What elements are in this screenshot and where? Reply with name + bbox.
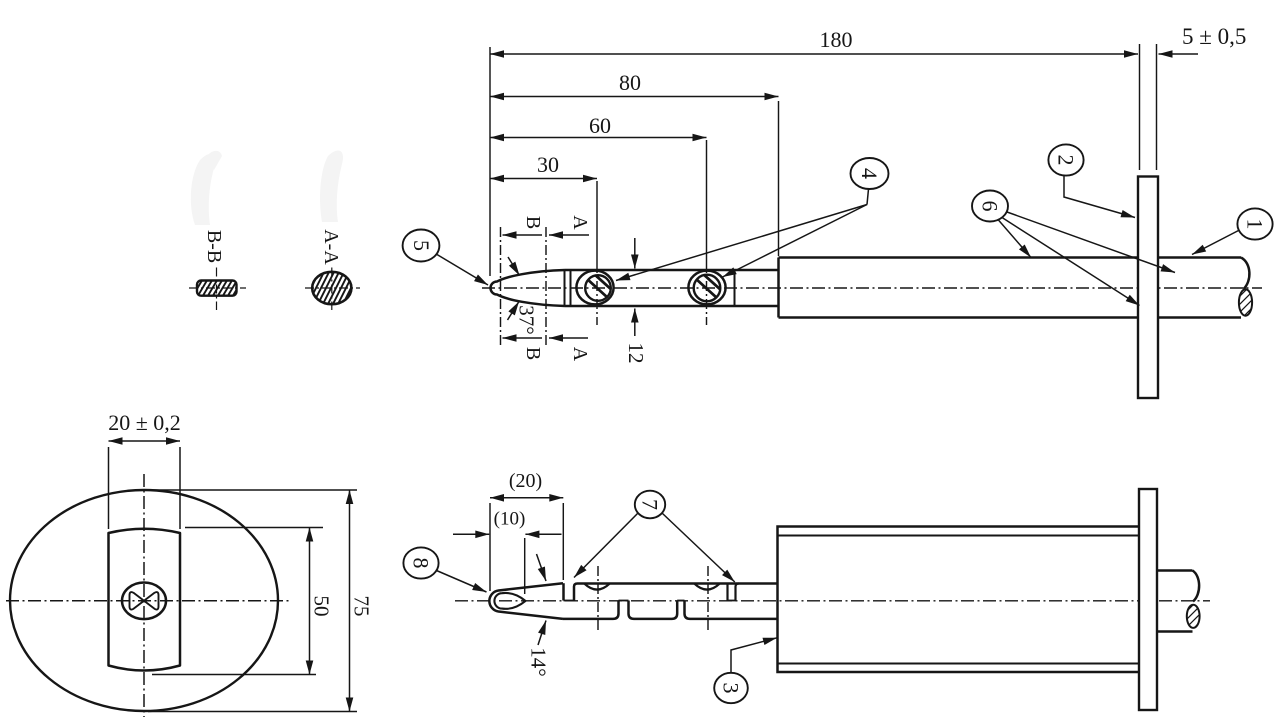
svg-text:75: 75 [350,596,374,617]
balloon 2 (stop plate) [1048,144,1135,217]
section arrow B (top) [503,234,543,236]
joint 2 centre line (side view) [707,566,709,633]
joint 1 (hatched pin, top view) [576,271,613,305]
extension line at 20 from tip [562,503,564,580]
joint 1 centre line [596,181,598,263]
finger segments lower half (side view) [563,601,778,619]
stop plate (part 2) top view [1138,177,1158,399]
hatching of broken rod end (side view) [1182,598,1206,636]
piece 1 lower tongue [563,601,619,619]
svg-text:37°: 37° [515,305,539,334]
extension line at 10 from tip [524,538,526,594]
svg-text:6: 6 [978,201,1003,212]
dimension (10) [453,533,562,535]
svg-text:A: A [569,347,591,362]
svg-text:14°: 14° [527,647,551,676]
angle 14 deg arrows at tip (side view) [537,554,547,645]
extension line at tip (side view) [489,503,491,591]
joint 2 centre line [706,140,708,263]
svg-text:60: 60 [589,113,611,138]
extension line at finger tip [489,47,491,276]
centerline of probe axis (top view) [482,287,1262,289]
dimension 75 [349,490,351,712]
extension line at handle front face [778,101,780,256]
dimension 30 [490,178,597,180]
svg-text:2: 2 [1054,155,1079,166]
finger segments upper half (side view) [564,583,778,600]
section line B [500,227,502,346]
horizontal centre line (front view) [6,600,290,602]
section arrow B (bottom) [503,337,543,339]
finger end view circle [122,583,166,620]
svg-text:180: 180 [820,27,853,52]
svg-text:B: B [522,216,544,229]
handle (side view, part 3) [778,527,1144,673]
svg-text:3: 3 [719,683,744,694]
extension lines for 20 +/- 0,2 [108,447,110,529]
svg-text:(20): (20) [509,470,542,492]
section arrow A (bottom) [549,337,588,339]
piece 2 upper [574,584,778,601]
joint 2 relief lens [695,584,720,590]
extension lines of stop plate thickness [1139,44,1141,170]
finger tip (side view): cap and taper [489,583,563,619]
slot 2 [728,584,740,601]
svg-text:5 ± 0,5: 5 ± 0,5 [1182,24,1246,49]
svg-text:B: B [522,347,544,360]
centerline of probe axis (side view) [455,600,1210,602]
section line A [545,227,547,346]
balloon 1 (rod) [1192,208,1273,254]
section arrow A (top) [549,234,589,236]
piece 1 upper end [562,583,565,600]
extension lines for 75 [150,489,357,491]
svg-text:80: 80 [619,70,641,95]
balloon 4 (joints) with two leaders [616,158,889,281]
svg-text:20 ± 0,2: 20 ± 0,2 [108,410,181,435]
svg-text:50: 50 [310,596,334,617]
tip flats bow-tie symbol [130,592,159,609]
balloon 7 (slots) with two leaders [574,491,735,582]
svg-text:8: 8 [409,558,434,569]
svg-text:B-B: B-B [203,230,225,263]
balloon 6 (rod/plate) with three leaders [972,191,1175,306]
svg-text:A-A: A-A [320,229,342,265]
svg-text:12: 12 [624,343,648,364]
joint 2 (hatched pin, top view) [688,271,725,305]
dimension 180 [490,53,1138,55]
tip chamfer teardrop [494,593,525,609]
balloon 8 (tip, side view) [403,547,486,592]
angle 37 deg arrows at tip [508,257,520,320]
svg-text:5: 5 [409,240,434,251]
dimension 20 +/- 0,2 [109,440,181,442]
handle (part 3) top view [779,258,1139,318]
extension lines for 50 [185,527,323,529]
test finger outline (top view) [491,270,779,306]
stop plate disc (front view) [10,490,278,711]
svg-text:4: 4 [857,168,882,179]
stop plate (side view, part 2) [1139,489,1157,710]
faint scan ghost near B-B [191,151,222,225]
balloon 3 (handle) [714,638,777,703]
svg-text:(10): (10) [494,509,526,530]
cylindrical rod behind plate with conventional break (top view) [1158,258,1252,318]
tip parting double lines [564,270,566,306]
vertical centre line (front view) [143,474,145,717]
svg-text:30: 30 [537,152,559,177]
section B-B shape [189,268,249,311]
slot 1 floor [564,600,575,602]
hatching of broken rod end (top view) [1234,284,1258,326]
svg-text:1: 1 [1243,219,1268,230]
faint scan ghost near A-A [320,150,343,222]
dimension 5 +/- 0,5 (plate thickness) [1159,53,1199,55]
joint 1 relief lens [585,584,610,590]
dimension (20) [490,497,563,499]
piece 2 lower tongue [629,601,678,619]
svg-text:7: 7 [638,499,663,510]
svg-text:A: A [569,215,591,230]
dimension 50 [309,528,311,675]
balloon 5 (tip) [403,230,488,286]
dimension 80 [490,96,779,98]
section A-A shape [300,266,372,310]
finger end face line [734,270,736,306]
rod behind plate with break (side view) [1157,571,1200,632]
handle front view [109,529,181,671]
piece 3 lower [685,601,778,619]
dimension 12 (finger diameter) [634,238,636,336]
dimension 60 [490,137,707,139]
joint 1 centre line (side view) [597,566,599,633]
